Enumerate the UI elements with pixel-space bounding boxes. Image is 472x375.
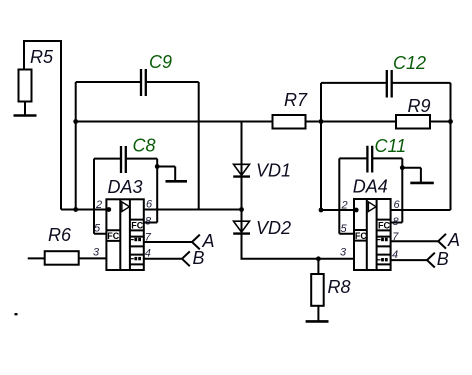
ground under R5 <box>14 114 37 117</box>
wire R6 to DA3 pin 3 <box>79 257 107 259</box>
node junction C12-left / DA4 pin2 <box>319 208 324 213</box>
wire DA3 pin 2 horizontal <box>61 209 107 211</box>
DA3 pin 3 number <box>93 247 100 259</box>
svg-text:B: B <box>193 248 205 268</box>
ground under R8 <box>306 320 329 323</box>
diode VD1 <box>233 161 291 181</box>
svg-text:3: 3 <box>93 247 100 259</box>
node junction C11 ground tap <box>400 165 405 170</box>
node junction bus / C9-left <box>73 119 78 124</box>
wire C11 right to DA4 pin 8 <box>391 158 403 222</box>
terminal B of DA4 <box>427 249 449 269</box>
svg-text:C11: C11 <box>375 136 407 156</box>
svg-text:VD2: VD2 <box>256 218 291 238</box>
svg-text:2: 2 <box>341 200 348 212</box>
wire DA4 pin 2 horizontal <box>321 209 354 211</box>
DA4 pin 8 number <box>393 216 400 228</box>
svg-text:8: 8 <box>393 216 400 228</box>
svg-text:4: 4 <box>145 248 151 260</box>
svg-text:R7: R7 <box>284 90 308 110</box>
svg-text:B: B <box>437 249 449 269</box>
stray mark <box>15 313 18 315</box>
DA3 pin 4 number <box>145 248 151 260</box>
wire bottom net to DA4 pin 3 <box>241 258 355 259</box>
wire R5 top to DA3 pin 2 net <box>60 40 62 210</box>
terminal B of DA3 <box>182 248 205 268</box>
resistor R6 <box>28 225 79 265</box>
svg-text:3: 3 <box>340 247 347 259</box>
node junction bus / C12-left <box>319 119 324 124</box>
svg-text:2: 2 <box>95 199 102 211</box>
svg-text:FC: FC <box>131 221 143 231</box>
svg-text:FC: FC <box>378 221 390 231</box>
wire C12 right vertical <box>450 83 452 210</box>
node DA4 pin 2 entry dot <box>354 208 359 213</box>
DA3 pin 8 number <box>145 216 152 228</box>
svg-text:C9: C9 <box>149 52 172 72</box>
svg-text:8: 8 <box>145 216 152 228</box>
svg-text:A: A <box>447 230 460 250</box>
node junction C9-left / pin2 wire <box>73 207 78 212</box>
capacitor C8 <box>94 136 157 174</box>
resistor R5 <box>19 40 62 116</box>
wire bus to VD1 <box>241 122 243 177</box>
DA4 pin 3 number <box>340 247 347 259</box>
ground at C11 <box>402 168 434 183</box>
wire bus left segment <box>76 121 273 123</box>
node junction R9 / C12-right <box>448 119 453 124</box>
svg-text:R9: R9 <box>408 96 431 116</box>
DA3 pin 7 number <box>145 232 152 244</box>
capacitor C11 <box>339 136 406 173</box>
op-amp timer DA4 body <box>353 177 391 271</box>
wire DA3 pin 7 to terminal A <box>144 241 192 243</box>
svg-text:R8: R8 <box>328 277 351 297</box>
ground at C8 <box>157 167 187 182</box>
svg-text:DA4: DA4 <box>353 177 388 197</box>
DA4 pin 6 number <box>394 199 401 211</box>
wire VD2 to bottom net <box>241 234 243 259</box>
svg-text:VD1: VD1 <box>256 161 291 181</box>
op-amp timer DA3 body <box>106 177 143 270</box>
wire C11 left to DA4 pin 5 <box>339 158 354 233</box>
wire DA3 pin 4 to terminal B <box>144 258 182 260</box>
terminal A of DA3 <box>192 231 215 251</box>
wire C8 left to DA3 pin 5 <box>94 159 107 234</box>
wire DA4 pin 6 to C12-right <box>391 209 451 211</box>
svg-text:C12: C12 <box>393 53 426 73</box>
resistor R9 <box>396 96 431 129</box>
diode VD2 <box>233 218 291 238</box>
resistor R7 <box>273 90 308 129</box>
wire C8 right to DA3 pin 8 <box>144 159 157 223</box>
wire R7 to C12-left <box>306 121 397 123</box>
DA3 pin 2 number <box>95 199 102 211</box>
svg-text:C8: C8 <box>133 136 156 156</box>
wire DA4 pin 4 to terminal B <box>391 259 427 261</box>
svg-text:FC: FC <box>355 231 367 241</box>
DA3 pin 5 number <box>94 223 101 235</box>
wire C9 right vertical <box>198 82 200 210</box>
svg-text:FC: FC <box>107 231 119 241</box>
svg-text:5: 5 <box>94 223 101 235</box>
DA4 pin 2 number <box>341 200 348 212</box>
wire DA4 pin 7 to terminal A <box>391 240 438 242</box>
terminal A of DA4 <box>438 230 460 250</box>
node junction C8 ground tap <box>155 164 160 169</box>
node DA3 pin 2 entry dot <box>106 207 111 212</box>
DA4 pin 4 number <box>392 249 398 261</box>
wire C9 left vertical <box>75 82 77 210</box>
node junction R8 / bottom net <box>316 256 321 261</box>
svg-text:6: 6 <box>146 199 153 211</box>
svg-text:DA3: DA3 <box>108 177 143 197</box>
node junction diodes / pin6 wire <box>239 207 244 212</box>
svg-text:R6: R6 <box>48 225 72 245</box>
svg-text:R5: R5 <box>30 47 54 67</box>
DA3 pin 6 number <box>146 199 153 211</box>
wire DA3 pin 6 to diode node <box>144 209 242 211</box>
wire R9 to C12-right <box>430 121 451 123</box>
DA4 pin 7 number <box>392 231 399 243</box>
wire C12 left vertical <box>320 83 322 210</box>
DA4 pin 5 number <box>341 223 348 235</box>
resistor R8 <box>311 259 350 321</box>
wire VD1 to VD2 <box>241 177 243 234</box>
svg-text:6: 6 <box>394 199 401 211</box>
capacitor C12 <box>321 53 451 98</box>
capacitor C9 <box>76 52 199 96</box>
svg-text:5: 5 <box>341 223 348 235</box>
